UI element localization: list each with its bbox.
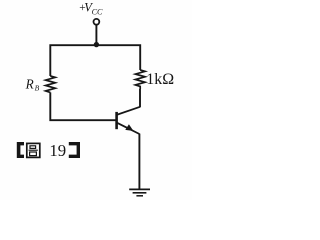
svg-text:B: B: [35, 84, 40, 93]
collector lead: [117, 107, 140, 115]
resistor RB: [46, 76, 56, 92]
wire left leg to base: [50, 92, 115, 120]
label RB: [25, 76, 40, 92]
base bar: [115, 112, 118, 129]
emitter lead: [117, 123, 140, 134]
resistor R1 1k: [135, 70, 145, 89]
wire collector vertical: [139, 89, 141, 107]
ground: [129, 189, 150, 195]
caption bracket left: [17, 142, 24, 158]
label +VCC: [79, 0, 103, 16]
svg-text:1kΩ: 1kΩ: [146, 71, 174, 88]
wire emitter vertical: [138, 134, 140, 190]
node +VCC terminal: [94, 19, 100, 25]
caption glyph Tu (figure): [27, 143, 40, 157]
svg-text:19: 19: [49, 141, 66, 160]
svg-text:R: R: [25, 76, 34, 91]
svg-text:CC: CC: [92, 7, 103, 16]
emitter arrow: [125, 124, 133, 131]
junction dot: [94, 42, 99, 47]
caption bracket right: [69, 142, 80, 158]
transistor Q1: [117, 107, 140, 134]
wire top rail: [50, 45, 140, 76]
wire VCC stub: [95, 25, 97, 45]
